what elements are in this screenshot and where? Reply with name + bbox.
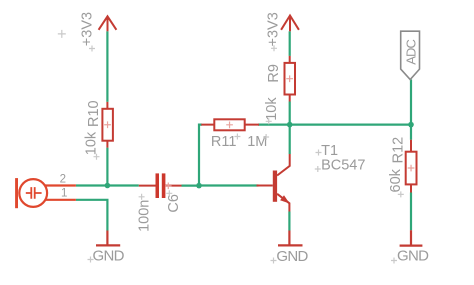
- svg-text:GND: GND: [397, 248, 429, 265]
- wire mic pin2 net to C6: [76, 184, 139, 186]
- wire R12 bottom to GND: [410, 193, 412, 231]
- wire C6 right to R11 left: [182, 125, 203, 186]
- svg-text:R12: R12: [391, 137, 407, 164]
- ground GND mic: [96, 231, 120, 246]
- svg-text:10k: 10k: [84, 131, 100, 155]
- wire R9 top net: [289, 31, 291, 56]
- ground GND R12: [400, 230, 423, 245]
- junction C6 / R11 / base: [196, 183, 202, 189]
- wire mic pin1 net to GND: [76, 200, 108, 231]
- capacitor C6: [139, 173, 182, 198]
- wire R9 bottom net: [289, 102, 291, 125]
- svg-text:BC547: BC547: [321, 158, 365, 174]
- svg-text:1: 1: [61, 188, 67, 200]
- svg-text:GND: GND: [93, 248, 125, 265]
- svg-text:R11: R11: [211, 134, 237, 150]
- wire base net: [199, 184, 258, 186]
- supply +3V3 left arrow: [99, 16, 117, 31]
- junction ADC / R12: [408, 122, 414, 128]
- svg-text:10k: 10k: [264, 97, 280, 121]
- resistor R11: [201, 119, 259, 130]
- flag ADC: [401, 31, 420, 79]
- wire R10 bottom net: [106, 148, 108, 186]
- svg-text:GND: GND: [276, 248, 308, 265]
- svg-text:+3V3: +3V3: [266, 12, 282, 46]
- svg-text:ADC: ADC: [403, 40, 418, 65]
- resistor R12: [406, 140, 417, 193]
- junction R9 / R11 / collector: [287, 122, 293, 128]
- ground GND transistor: [278, 231, 303, 246]
- svg-text:+3V3: +3V3: [80, 12, 96, 46]
- wire emitter to GND: [288, 212, 290, 231]
- svg-text:60k: 60k: [388, 168, 404, 192]
- resistor R10: [102, 102, 113, 148]
- microphone MIC: [15, 178, 76, 208]
- junction mic pin2 / R10: [105, 183, 111, 189]
- supply +3V3 right arrow: [281, 16, 299, 32]
- svg-text:C6: C6: [166, 194, 182, 213]
- resistor R9: [285, 56, 296, 102]
- wire ADC flag down: [410, 80, 412, 140]
- wire main horizontal to ADC/R12 column: [290, 123, 411, 125]
- svg-text:R9: R9: [266, 64, 282, 83]
- wire R10 top net: [106, 31, 108, 102]
- svg-text:2: 2: [60, 174, 66, 186]
- origin crosses (gray): [58, 30, 404, 264]
- svg-text:T1: T1: [321, 143, 338, 159]
- svg-text:R10: R10: [86, 100, 102, 127]
- wire collector net: [289, 125, 291, 154]
- svg-text:100n: 100n: [137, 200, 153, 232]
- transistor T1: [257, 154, 290, 212]
- wire R11 right to junction: [258, 123, 290, 125]
